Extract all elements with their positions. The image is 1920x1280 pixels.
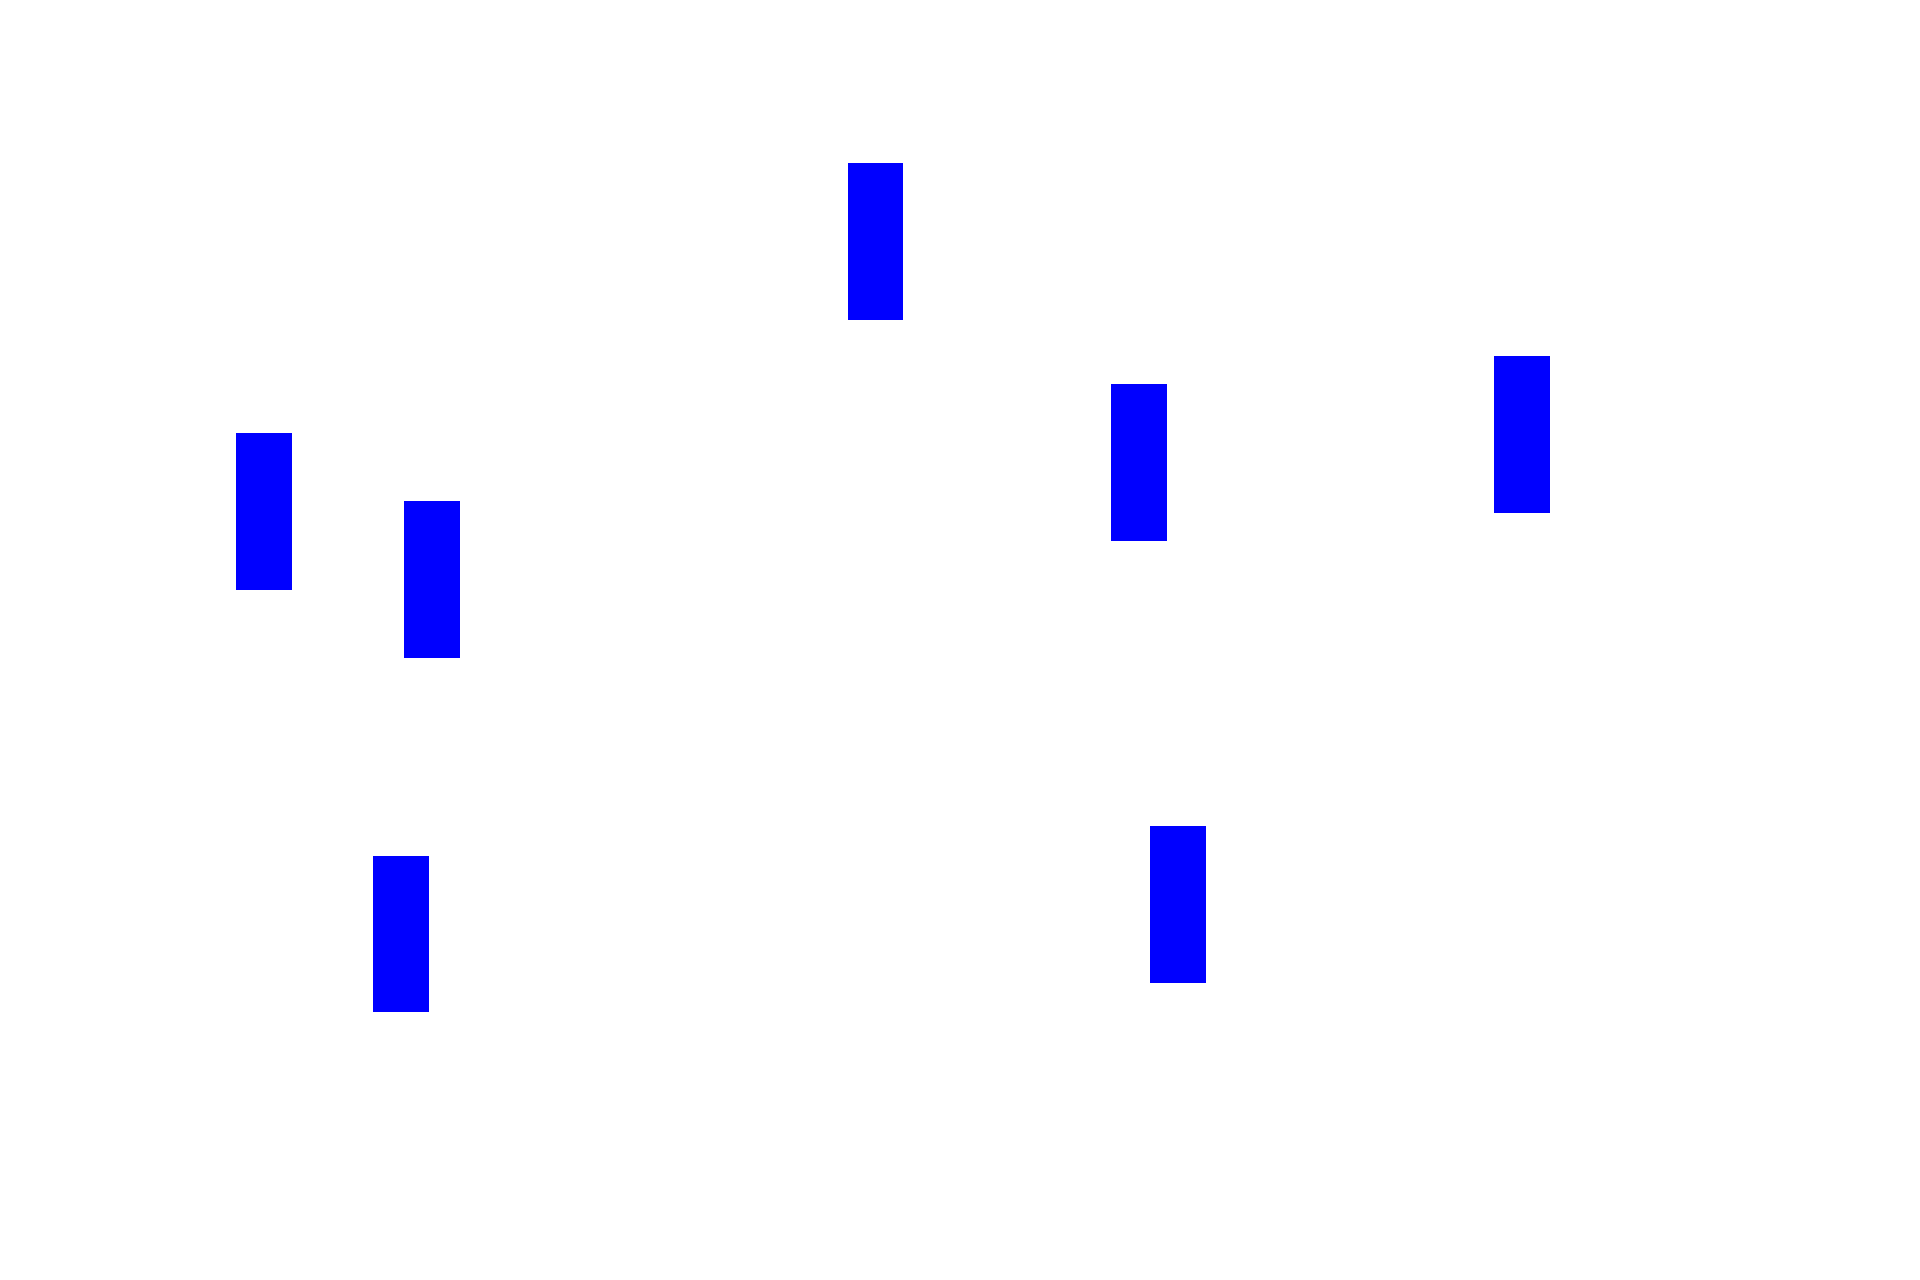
bar 1 (top middle): [848, 163, 904, 320]
bar 4 (center right): [1111, 384, 1167, 541]
bar 6 (bottom left): [373, 856, 429, 1013]
bar 3 (left lower): [404, 501, 460, 658]
bar 5 (far right): [1494, 356, 1550, 513]
bar 7 (bottom right): [1150, 826, 1206, 983]
bar 2 (left upper): [236, 433, 292, 590]
